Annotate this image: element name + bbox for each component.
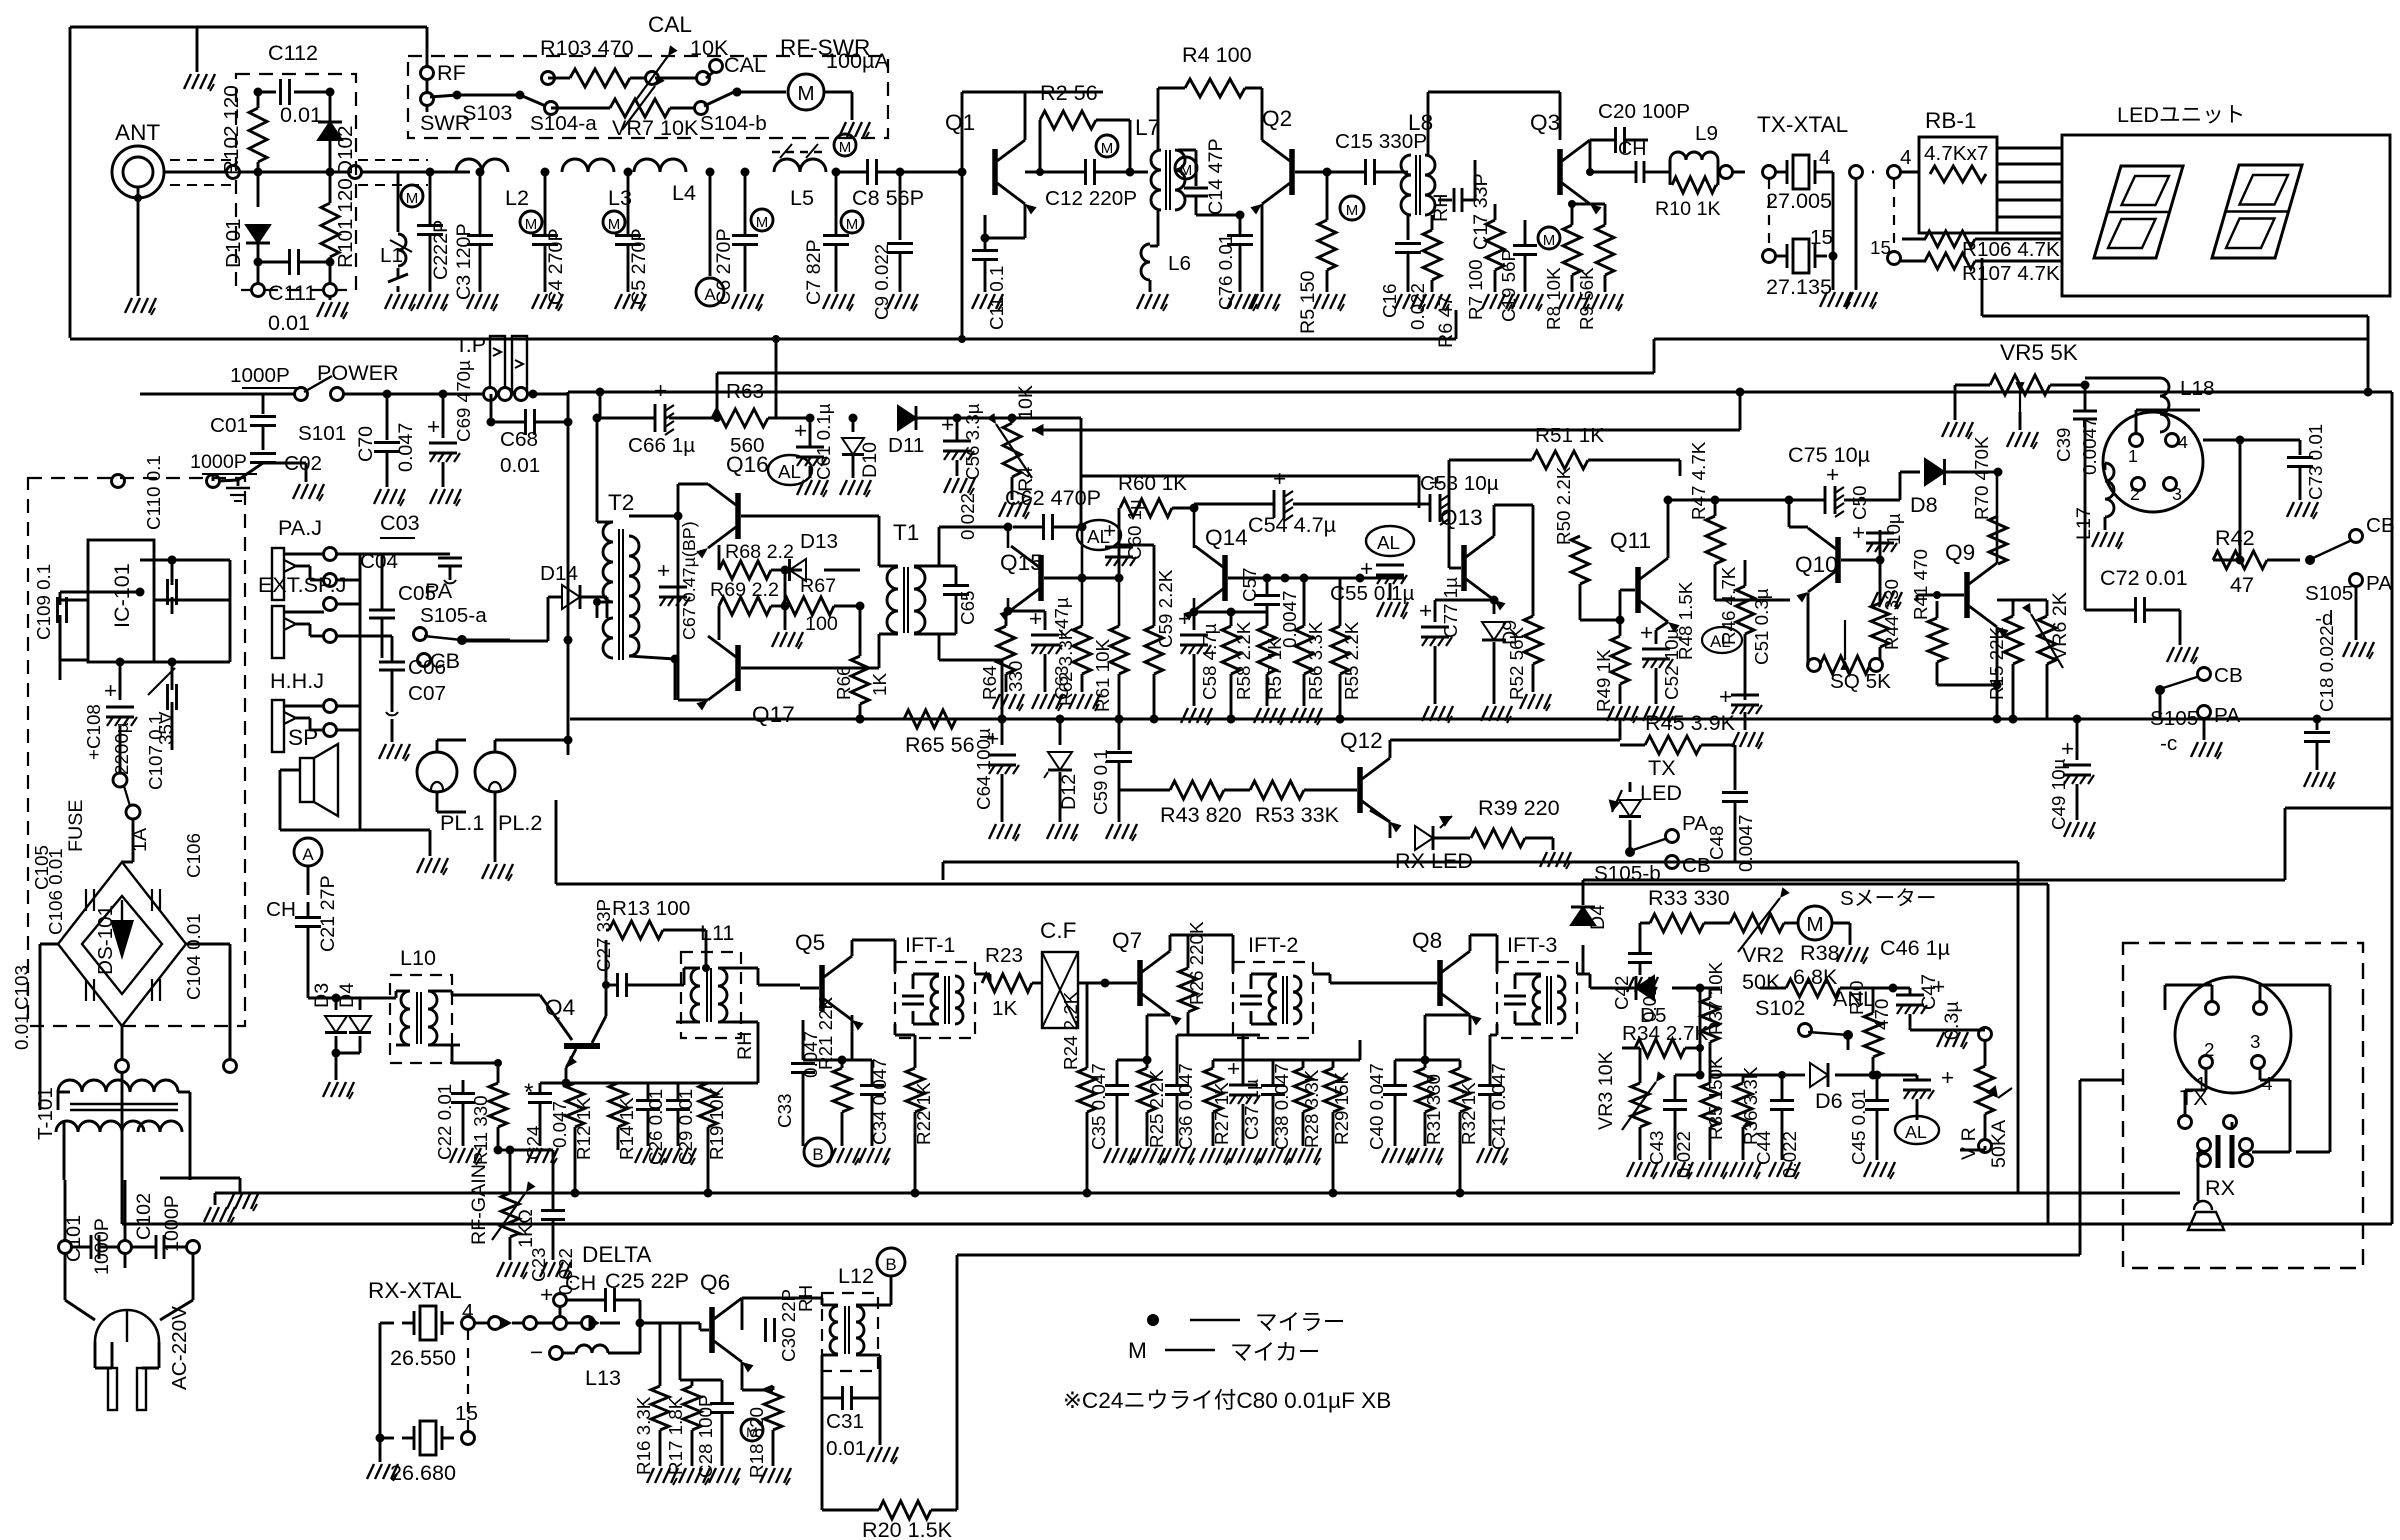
ground [450, 1148, 481, 1165]
capacitor C104 0.01 [152, 913, 204, 1001]
wire t1 sec top [939, 523, 1013, 724]
svg-text:1K: 1K [869, 673, 890, 696]
connector DIN speaker [2103, 410, 2203, 512]
svg-text:R44 330: R44 330 [1881, 579, 1902, 650]
resistor R67 100 [782, 575, 865, 635]
label AL ecap C61 [768, 414, 827, 486]
svg-text:R50 2.2K: R50 2.2K [1553, 466, 1574, 545]
svg-text:0.01: 0.01 [500, 454, 540, 477]
ground AL hatch [1360, 526, 1414, 619]
svg-text:M: M [756, 214, 769, 231]
capacitor C5 270P [603, 168, 650, 306]
svg-text:R102 120: R102 120 [220, 85, 243, 175]
svg-text:C61 0.1µ: C61 0.1µ [813, 403, 834, 480]
ground [1422, 706, 1453, 723]
ground [2064, 822, 2095, 839]
wire c68 down [564, 422, 573, 645]
resistor R45 3.9K [1620, 710, 1736, 754]
svg-text:26.550: 26.550 [390, 1345, 456, 1370]
svg-text:D11: D11 [888, 434, 924, 457]
ground [1837, 947, 1868, 964]
svg-text:4: 4 [1819, 146, 1831, 169]
ground [1477, 1148, 1508, 1165]
svg-text:RX-XTAL: RX-XTAL [368, 1278, 462, 1303]
wire ift1 out [975, 974, 990, 983]
svg-text:0.01: 0.01 [268, 310, 310, 335]
capacitor C61 0.1u label [813, 403, 834, 480]
ground [2092, 532, 2123, 549]
svg-text:R4 100: R4 100 [1182, 42, 1252, 67]
wire q6 base feed [640, 1321, 700, 1324]
resistor R53 33K [1250, 781, 1340, 827]
svg-text:C07: C07 [408, 682, 446, 705]
svg-text:POWER: POWER [317, 360, 399, 385]
capacitor C39 0.0047 [2053, 385, 2100, 475]
ground [615, 294, 646, 311]
svg-text:C59 0.1: C59 0.1 [1090, 749, 1111, 815]
ground [1181, 708, 1212, 725]
capacitor C112 [254, 40, 335, 127]
svg-text:LEDユニット: LEDユニット [2117, 102, 2245, 127]
dashed box D101/D102 unit [236, 74, 356, 290]
ground [1047, 824, 1078, 841]
svg-text:4: 4 [1900, 146, 1912, 169]
ground [829, 1148, 860, 1165]
capacitor C26 0.01 [618, 1083, 666, 1165]
svg-text:C12 220P: C12 220P [1045, 187, 1137, 210]
svg-text:Q17: Q17 [752, 702, 795, 727]
ground [944, 478, 975, 495]
switch POWER S101 [295, 360, 399, 445]
lamp PL.2 [437, 740, 542, 846]
svg-text:PA: PA [425, 578, 453, 603]
transformer L12 coils [802, 1298, 872, 1362]
wire q5 collector [852, 940, 895, 972]
svg-text:C31: C31 [826, 1410, 864, 1433]
wire c68 stub [487, 392, 573, 427]
ground [1164, 1148, 1195, 1165]
pot VR 50KA [1958, 1028, 2012, 1169]
capacitor C49 10u [2048, 715, 2094, 831]
ground [184, 74, 215, 91]
svg-text:VR6 2K: VR6 2K [2049, 592, 2071, 660]
wire Q1 emitter [981, 204, 1026, 243]
svg-text:M: M [1101, 140, 1114, 157]
svg-text:SP: SP [288, 725, 318, 750]
svg-text:M: M [846, 216, 859, 233]
svg-text:C222P: C222P [430, 220, 452, 280]
wire q7 collector [1170, 935, 1233, 972]
resistor R64 330 [979, 611, 1026, 700]
svg-text:Q3: Q3 [1530, 110, 1560, 135]
ground [1662, 1162, 1693, 1179]
svg-text:R33 330: R33 330 [1648, 885, 1730, 910]
svg-text:L4: L4 [672, 180, 696, 205]
switch S105-a PA/CB [414, 578, 511, 673]
wire sp [280, 770, 430, 856]
svg-text:C104 0.01: C104 0.01 [183, 913, 204, 1000]
diode D101 [222, 168, 270, 269]
ground [1106, 824, 1137, 841]
ground c02 [290, 470, 324, 501]
wire bus y862 [943, 862, 2018, 1193]
resistor R33 330 [1640, 885, 1730, 940]
ground [367, 1464, 398, 1481]
capacitor C67 0.47u BP [657, 521, 699, 640]
svg-text:D6: D6 [1815, 1088, 1843, 1113]
transistor Q13 [1440, 505, 1506, 611]
svg-text:R68 2.2: R68 2.2 [725, 541, 794, 563]
capacitor C34 0.047 [842, 1058, 890, 1146]
capacitor C9 0.022 [871, 244, 913, 321]
svg-text:C66 1µ: C66 1µ [628, 434, 695, 457]
ground [527, 1148, 558, 1165]
capacitor C18 0.022 [2304, 625, 2337, 770]
transistor Q1 [945, 110, 1037, 215]
svg-text:T.P: T.P [455, 332, 486, 357]
capacitor C29 0.01 [648, 1083, 696, 1165]
svg-text:D10: D10 [859, 442, 881, 478]
svg-text:27.135: 27.135 [1766, 274, 1832, 299]
resistor R32 1K [1425, 1060, 1479, 1193]
wire q9 emitter [1993, 627, 2002, 724]
svg-text:C69 470µ: C69 470µ [453, 360, 474, 442]
svg-text:A: A [704, 285, 716, 304]
wire to gnd D101 [252, 262, 265, 297]
dashed box IFT-2 [1233, 932, 1313, 1038]
svg-text:1000P: 1000P [190, 451, 247, 473]
resistor R14 1K [609, 1083, 637, 1160]
legend note C24/C80 [1063, 1388, 1391, 1413]
transistor Q10 [1789, 500, 1838, 603]
wire led unit bottom [1982, 258, 2373, 397]
label RH [1430, 194, 1452, 222]
coil L13 [576, 1323, 660, 1390]
svg-text:C70: C70 [355, 426, 377, 462]
svg-text:26.680: 26.680 [390, 1460, 456, 1485]
svg-text:R42: R42 [2215, 525, 2255, 550]
ground [760, 1468, 791, 1485]
box IC-101 [88, 540, 154, 662]
dashed box S103/S104 meter switch [408, 56, 888, 138]
svg-text:R7 100: R7 100 [1465, 259, 1486, 320]
capacitor C222P [417, 168, 452, 293]
svg-text:C01: C01 [210, 414, 248, 437]
diode D4 [332, 983, 372, 1080]
wire q14 collector [1193, 508, 1196, 548]
wire ac drops [65, 1180, 193, 1268]
coil L6 [1141, 210, 1191, 292]
wire l10 to q4 [444, 991, 572, 1063]
svg-text:R18 820: R18 820 [746, 1407, 767, 1478]
resistor R29 15K [1303, 1060, 1352, 1193]
ground [989, 824, 1020, 841]
diode D10 [842, 414, 881, 479]
svg-text:D3: D3 [311, 983, 333, 1008]
svg-text:L6: L6 [1168, 252, 1191, 275]
wire q11 collector up [1664, 496, 1673, 559]
svg-text:C11 0.1: C11 0.1 [986, 266, 1007, 330]
svg-text:AC-220V: AC-220V [168, 1306, 191, 1390]
svg-text:C68: C68 [500, 428, 538, 451]
resistor R106 4.7K [1902, 231, 2062, 261]
resistor R56 3.3K [1295, 574, 1326, 707]
svg-text:0.047: 0.047 [395, 423, 417, 472]
wire mid top rail [596, 388, 605, 419]
label AL小 [1702, 627, 1742, 653]
resistor R31 330 [1416, 1015, 1470, 1146]
resistor R2 56 [1040, 80, 1130, 129]
svg-text:C112: C112 [268, 40, 318, 65]
ground [1290, 1148, 1321, 1165]
svg-text:15: 15 [455, 1402, 478, 1425]
svg-text:R52 56K: R52 56K [1506, 626, 1527, 700]
ground [859, 1148, 890, 1165]
svg-text:M: M [525, 216, 538, 233]
wire c53 to q13 [1448, 504, 1451, 568]
capacitor C37 1u [1227, 1035, 1262, 1146]
svg-text:C102: C102 [133, 1193, 155, 1240]
ground [125, 298, 156, 315]
capacitor C111 [254, 249, 335, 335]
svg-text:R53 33K: R53 33K [1255, 802, 1340, 827]
svg-text:4: 4 [2178, 432, 2188, 452]
resistor R27 1K [1204, 1060, 1243, 1146]
svg-text:M: M [1128, 1338, 1147, 1363]
resistor R61 10K [1092, 578, 1128, 724]
meter mark M [1175, 157, 1197, 179]
svg-text:R101 120: R101 120 [334, 178, 357, 268]
resistor R24 2.2K [1060, 983, 1096, 1193]
svg-text:C3 120P: C3 120P [453, 223, 475, 300]
diode D11 [888, 406, 957, 457]
svg-text:R51 1K: R51 1K [1535, 424, 1604, 447]
svg-text:R15 22K: R15 22K [1986, 626, 2007, 700]
ground [1395, 294, 1426, 311]
wire q16 wires [678, 484, 879, 700]
svg-text:TX: TX [1648, 755, 1676, 780]
ground [1540, 852, 1571, 869]
label CH + [540, 1270, 596, 1316]
diode D13 [785, 530, 860, 581]
svg-text:C59 2.2K: C59 2.2K [1155, 569, 1176, 648]
svg-text:Q2: Q2 [1262, 106, 1292, 131]
svg-text:Q7: Q7 [1112, 928, 1142, 953]
node bridge left [40, 944, 58, 1110]
resistor R5 150 [1297, 172, 1364, 334]
resistor R59 C59 2.2K [1119, 545, 1176, 724]
svg-text:10K: 10K [1015, 385, 1037, 420]
wire q12 collector [1390, 719, 1620, 758]
svg-text:M: M [797, 82, 814, 105]
resistor R43 820 [1119, 781, 1250, 827]
meter mark M [834, 134, 856, 156]
svg-text:R103 470: R103 470 [540, 35, 634, 60]
wire q16 base r68 [718, 545, 721, 640]
resistor R9 56K [1568, 200, 1614, 330]
resistor R57 1K [1258, 626, 1285, 706]
wire a to diodes [308, 997, 336, 1000]
wire s105d gnd [2343, 586, 2374, 659]
resistor R10 1K [1655, 172, 1745, 220]
capacitor C51 0.3u [1719, 588, 1772, 730]
ground [867, 1447, 898, 1464]
svg-text:PA: PA [1682, 812, 1708, 835]
resistor R15 22K [1986, 600, 2022, 724]
meter S M [1798, 887, 1937, 945]
crystal 26.550 [380, 1300, 475, 1438]
svg-text:V R: V R [1958, 1127, 1980, 1160]
wire r29 node [1333, 1040, 1360, 1060]
switch delta sel [536, 1317, 645, 1330]
capacitor C35 0.047 [1088, 1056, 1152, 1151]
resistor R44 330 [1871, 579, 1902, 665]
svg-text:+: + [1178, 606, 1191, 631]
wire to gnd R101 [324, 262, 337, 300]
svg-text:R39 220: R39 220 [1478, 795, 1560, 820]
wire bus y719 [570, 715, 2392, 724]
wire bridge bottom [116, 1026, 129, 1073]
resistor R18 820 [742, 1362, 782, 1478]
label RH btm [795, 1285, 816, 1312]
resistor R42 47 [2213, 525, 2315, 597]
capacitor C106 0.01 [152, 833, 204, 911]
svg-text:0.022: 0.022 [1407, 283, 1428, 330]
svg-text:3: 3 [2172, 484, 2182, 504]
wire xtal entry [1718, 166, 1776, 179]
svg-text:C22 0.01: C22 0.01 [434, 1084, 455, 1160]
svg-text:AL: AL [1905, 1122, 1927, 1142]
transistor Q2 [1250, 106, 1331, 215]
svg-text:+: + [1360, 556, 1373, 581]
capacitor C36 0.047 [1165, 1035, 1196, 1150]
ground [1937, 1032, 1968, 1049]
capacitor C52 10u [1640, 620, 1682, 704]
svg-text:R34 2.7K: R34 2.7K [1622, 1022, 1708, 1045]
node dashed box left [112, 474, 239, 488]
transistor Q16 [696, 452, 768, 559]
svg-text:C103: C103 [11, 965, 32, 1010]
svg-text:0.01: 0.01 [280, 102, 322, 127]
svg-text:D4: D4 [336, 983, 358, 1008]
wire Q2 emitter [1249, 204, 1280, 311]
transformer T2 [603, 490, 639, 660]
resistor R60 1K [1118, 472, 1199, 545]
wire RB1 to LED 6 [1997, 232, 2062, 235]
jack EXT.SP.J [258, 572, 346, 658]
svg-text:C106 0.01: C106 0.01 [45, 848, 66, 935]
switch S102 ANL [1755, 986, 1875, 1050]
svg-text:C21 27P: C21 27P [317, 875, 339, 952]
svg-text:C50: C50 [1849, 486, 1870, 520]
resistor R39 220 [1471, 795, 1560, 850]
ground [1032, 694, 1063, 711]
svg-text:R63: R63 [726, 380, 764, 403]
svg-text:27.005: 27.005 [1766, 188, 1832, 213]
svg-text:C54 4.7µ: C54 4.7µ [1248, 512, 1336, 537]
wire Q1 bias [896, 168, 963, 241]
svg-text:Q11: Q11 [1610, 528, 1651, 553]
svg-text:B: B [885, 1255, 896, 1274]
svg-text:+: + [1029, 606, 1042, 631]
capacitor C43 0.022 [1646, 1071, 1705, 1179]
resistor R50 2.2K [1553, 466, 1589, 620]
svg-text:0.01: 0.01 [11, 1013, 32, 1050]
resistor R68 2.2 [719, 541, 794, 579]
wire r46 top [1715, 560, 1790, 600]
resistor R36 3.3K [1710, 1066, 1761, 1160]
capacitor C40 0.047 [1366, 1056, 1430, 1151]
resistor R16 3.3K [633, 1323, 669, 1475]
svg-text:S104-b: S104-b [700, 112, 767, 135]
svg-text:0.01: 0.01 [826, 1437, 866, 1460]
svg-text:15: 15 [1870, 237, 1891, 258]
resistor R8 10K [1543, 204, 1581, 330]
capacitor C101 1000P [59, 1215, 132, 1275]
wire q15 base [1044, 527, 1124, 583]
wire b rail right [1872, 1075, 1874, 1224]
ground [1942, 412, 2038, 449]
wire q13 emitter [1493, 599, 1496, 602]
svg-text:L1: L1 [380, 244, 403, 267]
resistor R25 2.2K [1138, 1015, 1170, 1148]
svg-text:S105-a: S105-a [420, 604, 487, 627]
ground [1260, 1148, 1291, 1165]
svg-text:S105: S105 [2305, 582, 2353, 605]
capacitor C4 270P [520, 168, 567, 306]
transistor Q14 [1183, 525, 1247, 621]
ground [532, 294, 563, 311]
svg-text:50K: 50K [1742, 969, 1781, 994]
label TX mic [2179, 1068, 2237, 1129]
capacitor C54 4.7u [1194, 466, 1419, 537]
capacitor C06 [379, 636, 446, 700]
svg-text:M: M [1543, 232, 1556, 249]
ground [1732, 732, 1763, 749]
test point T.P [455, 332, 528, 401]
node A2 [294, 838, 322, 895]
wire bridge top [122, 861, 133, 864]
svg-text:+: + [1429, 470, 1442, 495]
svg-text:1: 1 [2128, 446, 2138, 466]
svg-text:R9 56K: R9 56K [1576, 267, 1597, 330]
svg-text:VR3 10K: VR3 10K [1595, 1051, 1617, 1130]
capacitor C110 0.1 [143, 455, 177, 614]
wire t2 to q16 rail [629, 497, 683, 700]
meter mark M btm [741, 1419, 763, 1441]
svg-text:R48 1.5K: R48 1.5K [1675, 581, 1696, 660]
svg-text:D101: D101 [222, 219, 245, 268]
svg-text:C.F: C.F [1040, 918, 1076, 943]
svg-text:M: M [406, 190, 419, 207]
dashed box L11 [681, 920, 741, 1038]
svg-text:CAL: CAL [648, 12, 692, 37]
ground [385, 294, 416, 311]
svg-text:C67 0.47µ(BP): C67 0.47µ(BP) [679, 521, 699, 640]
svg-text:C58 4.7µ: C58 4.7µ [1199, 623, 1220, 700]
svg-text:+: + [540, 1282, 553, 1307]
resistor R65 56 [904, 710, 975, 757]
svg-text:C60 1µ: C60 1µ [1124, 499, 1145, 560]
svg-text:L12: L12 [838, 1263, 874, 1288]
svg-text:C44: C44 [1753, 1131, 1774, 1165]
svg-text:C4 270P: C4 270P [545, 228, 567, 305]
svg-text:CH: CH [565, 1270, 596, 1295]
svg-text:R49 1K: R49 1K [1593, 649, 1614, 712]
coil L2 [456, 159, 529, 210]
resistor R4 100 [1158, 42, 1262, 150]
capacitor C105 0.01 [31, 845, 94, 911]
